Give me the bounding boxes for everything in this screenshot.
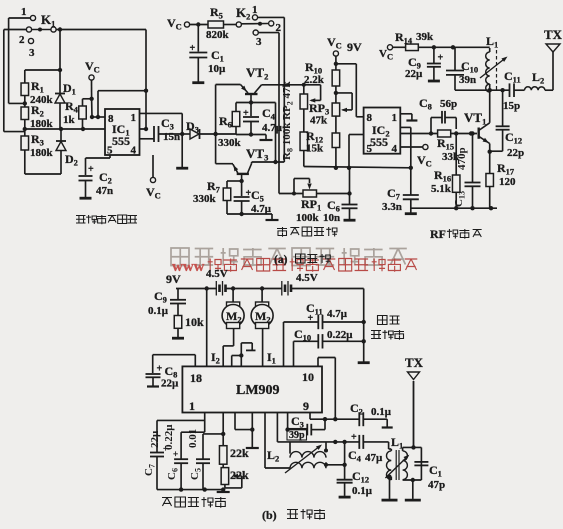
svg-text:47k: 47k <box>310 115 328 127</box>
stub A <box>234 413 236 430</box>
svg-text:1k: 1k <box>63 114 76 126</box>
svg-text:39k: 39k <box>416 31 434 43</box>
capacitor C13 470p <box>453 131 481 208</box>
transistor VT1 <box>464 110 490 145</box>
op-amp timer IC1 555 <box>105 109 140 157</box>
svg-text:0.01: 0.01 <box>187 429 199 448</box>
motor M2 left <box>222 289 244 367</box>
ground (IC2 pin1) <box>406 119 417 121</box>
svg-text:R8 100k RP2 47k: R8 100k RP2 47k <box>281 81 295 160</box>
transformer L1 (rx) <box>385 435 410 499</box>
resistor R14 39k <box>395 30 490 51</box>
potentiometer RP2 (left column bottom) <box>300 132 308 167</box>
wire K2 contact1 down-line <box>258 16 285 18</box>
resistor 22k lower <box>221 464 249 488</box>
label RF oscillator <box>430 227 482 241</box>
capacitor C5 4.7u <box>234 181 272 215</box>
ground (C6) <box>344 219 356 222</box>
switch K1 <box>4 6 56 59</box>
resistor R17 120 <box>486 161 516 208</box>
node VT1 emitter <box>489 144 491 174</box>
wire VT2 base feed <box>215 85 217 164</box>
wire pin1 to gnd column <box>140 112 183 114</box>
timer IC2 555 <box>364 108 401 156</box>
svg-text:47p: 47p <box>428 479 445 491</box>
wire C5/R7 bottom <box>239 212 243 216</box>
ground (C1) <box>192 81 204 84</box>
svg-text:3: 3 <box>256 36 262 48</box>
svg-text:15n: 15n <box>163 131 180 143</box>
svg-text:22k: 22k <box>230 468 249 482</box>
resistor 10k (rx) <box>174 315 204 337</box>
svg-text:47n: 47n <box>96 185 113 197</box>
wire C7 column <box>156 420 158 452</box>
antenna TX (receiver) <box>405 355 424 447</box>
ground (22k chain) <box>217 491 230 493</box>
ground (C9 RF) <box>428 80 440 83</box>
wire RF bottom rail <box>411 207 497 209</box>
svg-text:47μ: 47μ <box>365 452 383 464</box>
svg-text:18: 18 <box>190 371 202 385</box>
wire pin4 to VC <box>146 155 161 201</box>
resistor R6 330k <box>218 112 242 150</box>
capacitor C11 15p <box>503 69 525 112</box>
svg-text:10k: 10k <box>185 315 204 329</box>
svg-text:4.5V: 4.5V <box>296 272 318 284</box>
capacitor C6 0.22u (rx) <box>163 424 205 490</box>
diode D2 <box>56 129 78 174</box>
wire VC to pin8 <box>91 99 93 117</box>
svg-text:10μ: 10μ <box>208 63 226 75</box>
capacitor C10 0.22u (rx) <box>294 327 364 366</box>
capacitor C3 39p (rx) <box>285 413 327 442</box>
wire bottom rail to IC1 <box>25 128 146 130</box>
wire pin1 to gnd <box>400 113 412 115</box>
ground (C2) <box>80 197 92 200</box>
label demod filter <box>371 316 404 340</box>
rotated label R8 100k RP2 47k <box>281 81 295 160</box>
potentiometer RP3 47k <box>309 91 352 133</box>
battery B1 4.5V <box>206 268 282 296</box>
stub C <box>264 413 266 469</box>
diode D1 <box>55 30 76 130</box>
svg-text:+: + <box>157 364 163 375</box>
capacitor C12 0.1u (rx) <box>337 442 373 497</box>
capacitor C9 0.1u (rx) <box>148 289 186 318</box>
VC terminal (R14 row) <box>379 45 406 62</box>
svg-text:0.1μ: 0.1μ <box>352 485 373 497</box>
ground (battery col) <box>358 361 370 364</box>
capacitor C8 22u (rx) <box>146 355 196 390</box>
ground (L1 cell) <box>405 499 421 502</box>
resistor R5 820k <box>206 5 236 41</box>
capacitor C2 47n <box>79 155 114 197</box>
wire K1 feed down <box>145 30 147 130</box>
capacitor C1 10u <box>189 25 226 82</box>
VC terminal 9V (main) <box>327 35 362 70</box>
inductor L2 (RF) <box>525 70 554 90</box>
antenna TX (transmitter) <box>544 27 563 90</box>
svg-text:39p: 39p <box>289 430 305 441</box>
svg-text:39n: 39n <box>459 74 476 86</box>
VC terminal (R5 row) <box>167 16 208 32</box>
svg-text:2: 2 <box>19 34 25 46</box>
switch tap symbol <box>232 343 256 367</box>
capacitor C2 0.1u (rx) <box>350 401 392 427</box>
resistor R16 5.1k <box>431 134 460 209</box>
svg-text:TX: TX <box>544 27 563 42</box>
svg-text:3: 3 <box>29 47 35 59</box>
wire VC branch right <box>336 63 356 65</box>
label duty-cycle generator <box>76 216 86 224</box>
wire pin5 stub <box>349 134 364 136</box>
node VT2 collector <box>249 100 253 104</box>
svg-text:RF: RF <box>430 227 446 241</box>
capacitor C7 3.3n <box>382 168 419 213</box>
svg-text:2.2k: 2.2k <box>304 74 325 86</box>
capacitor C4 4.7u <box>243 103 283 135</box>
capacitor C1 47p <box>414 462 445 491</box>
ground (audio) <box>266 219 279 221</box>
VC terminal (duty section) <box>85 59 100 101</box>
svg-text:22μ: 22μ <box>161 378 179 390</box>
wire pin10 jog <box>317 358 319 367</box>
wire pin8 stub <box>356 116 363 118</box>
svg-text:4.5V: 4.5V <box>206 268 228 280</box>
node R1-R2 <box>23 101 27 105</box>
battery B2 4.5V <box>282 272 364 296</box>
wire R3 bottom <box>25 173 61 175</box>
resistor R12 15k <box>306 129 340 168</box>
svg-text:56p: 56p <box>440 98 457 110</box>
svg-text:180k: 180k <box>30 147 54 159</box>
resistor R15 33k <box>437 130 460 163</box>
svg-text:0.22μ: 0.22μ <box>163 424 175 450</box>
wire pin3 output row <box>400 133 477 135</box>
wire pin4 to VC <box>400 144 432 168</box>
svg-text:22p: 22p <box>507 147 524 159</box>
capacitor C10 39n (RF) <box>446 47 478 90</box>
wire K1 row2 to node <box>56 29 146 31</box>
transistor VT3 <box>216 146 269 181</box>
wire VT1 collector up <box>489 90 491 123</box>
svg-text:470p: 470p <box>456 147 468 170</box>
svg-text:9V: 9V <box>347 40 362 54</box>
svg-text:5.1k: 5.1k <box>431 183 452 195</box>
svg-text:(b): (b) <box>262 508 277 522</box>
wire pin1 stub <box>204 413 206 433</box>
wire K1 pole rail <box>3 30 5 132</box>
wire pin9 row <box>309 413 311 420</box>
svg-text:1: 1 <box>189 399 195 413</box>
ground (C3 node) <box>176 167 188 170</box>
wire pin2 down <box>400 126 411 128</box>
label audio generator <box>277 227 287 237</box>
svg-text:1: 1 <box>21 6 27 18</box>
svg-text:330k: 330k <box>218 137 242 149</box>
svg-text:0.1μ: 0.1μ <box>371 406 392 418</box>
wire pin8 top rail <box>97 91 99 117</box>
transformer L2 (rx) <box>267 442 345 473</box>
capacitor C11 4.7u (rx) <box>284 301 364 366</box>
ground (C4) <box>260 139 273 141</box>
label (b) receiver <box>262 508 325 522</box>
ground (10k) <box>172 337 184 340</box>
label (a) transmitter <box>274 254 330 266</box>
label loop filter <box>162 498 172 507</box>
resistor R7 330k <box>193 179 242 214</box>
wire C4 bottom <box>249 132 253 136</box>
wire K2 contact3 down-line <box>258 32 279 34</box>
ground (L1 left) <box>382 499 398 502</box>
wire R6 column <box>235 103 237 112</box>
capacitor C12 22p <box>490 90 524 159</box>
svg-text:15k: 15k <box>306 143 324 155</box>
svg-text:15p: 15p <box>503 100 520 112</box>
svg-text:120: 120 <box>499 176 516 188</box>
wire 9V to pin18 col <box>206 289 208 367</box>
wire tank node row <box>455 89 510 91</box>
svg-text:22μ: 22μ <box>149 430 161 448</box>
wire collector to right <box>275 103 277 163</box>
svg-text:22μ: 22μ <box>405 68 423 80</box>
svg-text:820k: 820k <box>206 29 230 41</box>
capacitor C7 22u (rx) <box>143 430 168 476</box>
watermark red row <box>172 259 417 276</box>
svg-text:4: 4 <box>392 143 398 155</box>
capacitor C5 0.01 (rx) <box>187 429 223 490</box>
ground (C7) <box>405 212 417 215</box>
svg-text:330k: 330k <box>193 193 217 205</box>
capacitor C9 22u (RF) <box>405 47 444 80</box>
wire battery to ground col <box>363 289 365 362</box>
svg-text:0.1μ: 0.1μ <box>148 305 169 317</box>
transistor VT2 <box>216 65 269 103</box>
svg-text:1: 1 <box>392 112 398 124</box>
svg-text:TX: TX <box>405 355 424 370</box>
capacitor C3 15n <box>140 116 183 143</box>
resistor R3 <box>21 129 53 174</box>
node VT3 collector <box>239 179 243 183</box>
svg-text:+: + <box>88 164 94 175</box>
capacitor C8 56p <box>419 96 457 134</box>
svg-text:10n: 10n <box>323 212 340 224</box>
node rail y129 <box>59 127 63 131</box>
wire rx bottom rail <box>157 489 223 491</box>
ground (C8 rx) <box>147 385 159 387</box>
switch K2 <box>236 4 282 48</box>
resistor R4 <box>63 99 92 129</box>
svg-text:555: 555 <box>112 134 130 148</box>
IC LM909 <box>182 366 322 413</box>
potentiometer RP1 100k <box>279 179 321 225</box>
svg-text:9V: 9V <box>166 272 181 286</box>
svg-text:+: + <box>438 53 444 64</box>
inductor L1 (RF tank) <box>480 34 509 92</box>
ground (C12 rx) <box>339 496 351 499</box>
svg-text:3.3n: 3.3n <box>382 201 402 213</box>
resistor R10 2.2k <box>304 60 340 103</box>
svg-text:LM909: LM909 <box>236 383 280 398</box>
svg-text:+: + <box>351 432 357 443</box>
diode D3 <box>182 119 236 139</box>
wire R1 top <box>25 69 60 71</box>
svg-text:555: 555 <box>370 135 388 149</box>
resistor 22k upper <box>219 413 249 465</box>
svg-text:100k: 100k <box>296 212 320 224</box>
wire VT2 emitter rail <box>262 84 321 86</box>
motor M2 right <box>251 289 273 367</box>
svg-text:4.7μ: 4.7μ <box>327 308 348 320</box>
ground (stub B) <box>246 447 259 449</box>
wire C7 col branch <box>157 419 205 421</box>
svg-text:4.7μ: 4.7μ <box>262 122 283 134</box>
9V supply (receiver) <box>166 272 217 291</box>
wire bottom rail (audio/IC2) <box>304 167 411 168</box>
watermark gray row <box>171 248 189 266</box>
svg-text:9: 9 <box>303 399 309 413</box>
wire pin row to C4 <box>276 413 278 442</box>
svg-text:0.22μ: 0.22μ <box>327 329 353 341</box>
resistor R2 <box>21 103 53 130</box>
resistor R1 <box>21 70 53 106</box>
wire K1 contact-1 rail <box>8 18 10 103</box>
capacitor C6 10n <box>323 168 358 224</box>
wire RP1 to C6 <box>317 193 350 195</box>
svg-text:10: 10 <box>302 370 314 384</box>
wire VT3 emitter line <box>251 162 253 163</box>
node R2-R3 <box>23 127 27 131</box>
capacitor C4 47u (rx) <box>348 432 389 464</box>
wire L1 right frame <box>403 445 422 499</box>
svg-text:(a): (a) <box>274 254 288 266</box>
svg-text:1: 1 <box>131 112 137 124</box>
stub B ground <box>251 413 253 448</box>
svg-text:4: 4 <box>131 145 137 157</box>
ground (C2 rx) <box>382 426 393 428</box>
resistor R8 (left column top) <box>300 83 321 132</box>
